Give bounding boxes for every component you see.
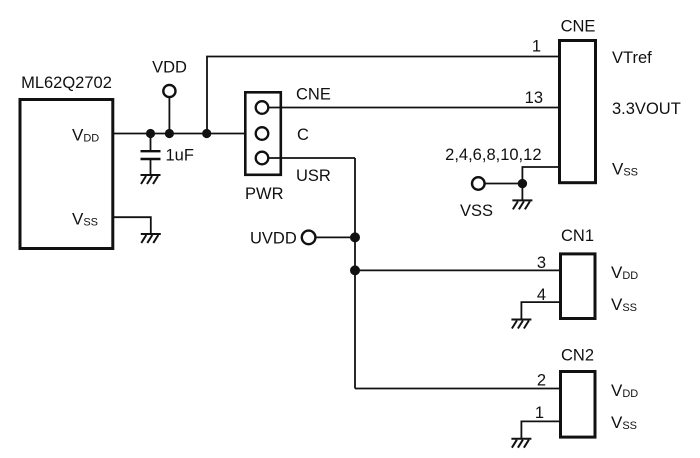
ground (CN2 pin 1) [511, 439, 531, 448]
wire VSS terminal to node [485, 183, 523, 185]
svg-text:ML62Q2702: ML62Q2702 [21, 74, 112, 92]
wire CNE VSS pins to node [522, 167, 558, 200]
svg-text:2,4,6,8,10,12: 2,4,6,8,10,12 [445, 146, 541, 164]
wire PWR pin CNE to CNE pin 13 [262, 107, 558, 109]
capacitor C1 bottom lead [150, 159, 152, 175]
wire U1 VSS pin to ground [113, 217, 151, 234]
svg-text:VSS: VSS [460, 202, 493, 220]
svg-text:CNE: CNE [296, 86, 331, 104]
svg-text:UVDD: UVDD [250, 230, 297, 248]
connector CN1 box [561, 254, 596, 319]
wire VDD bus from U1 VDD pin to PWR pin C [113, 133, 262, 135]
wire node to CNE pin 1 (vertical riser + top run) [207, 57, 558, 134]
wire CN2 pin 1 to ground [521, 421, 559, 438]
ground (CN1 pin 4) [511, 320, 531, 329]
wire UVDD vertical bus [354, 158, 356, 389]
PWR pin circle USR [256, 152, 269, 165]
junction node VSS [518, 179, 527, 188]
svg-text:1uF: 1uF [166, 147, 194, 165]
PWR pin circle CNE [256, 101, 269, 114]
connector PWR box [245, 92, 280, 175]
svg-text:CNE: CNE [561, 18, 596, 36]
wire PWR pin USR to UVDD bus [262, 157, 355, 159]
wire CN1 pin 4 to ground [521, 302, 559, 319]
junction node on VDD bus at VDD terminal [165, 129, 174, 138]
capacitor C1 top lead [150, 134, 152, 152]
svg-text:1: 1 [532, 38, 541, 56]
VDD terminal circle [163, 85, 175, 97]
svg-text:2: 2 [537, 372, 546, 390]
svg-text:USR: USR [296, 167, 331, 185]
svg-text:C: C [297, 126, 309, 144]
junction node on VDD bus at capacitor [146, 129, 155, 138]
svg-text:VTref: VTref [612, 49, 652, 67]
UVDD terminal circle [302, 231, 316, 245]
IC U1 ML62Q2702 box [20, 100, 113, 249]
junction node on VDD bus at riser [202, 129, 211, 138]
svg-text:CN2: CN2 [561, 347, 594, 365]
ground (U1 VSS) [141, 234, 161, 243]
wire bus to CN1 pin 3 [355, 269, 559, 271]
ground (CNE VSS) [512, 200, 532, 209]
ground (below capacitor C1) [141, 175, 161, 184]
junction node CN1 branch [350, 265, 360, 275]
connector CNE box [560, 41, 596, 183]
svg-text:13: 13 [525, 89, 543, 107]
svg-text:VDD: VDD [152, 59, 187, 77]
svg-text:CN1: CN1 [561, 227, 594, 245]
connector CN2 box [561, 372, 596, 438]
VSS terminal circle [472, 177, 485, 190]
capacitor C1 plates [141, 150, 161, 152]
wire UVDD terminal to bus [309, 236, 355, 238]
PWR pin circle C [256, 127, 269, 140]
svg-text:1: 1 [535, 404, 544, 422]
svg-text:3.3VOUT: 3.3VOUT [612, 100, 681, 118]
wire VDD terminal lead [168, 97, 170, 134]
svg-text:3: 3 [537, 254, 546, 272]
svg-text:PWR: PWR [245, 185, 284, 203]
junction node UVDD [350, 232, 360, 242]
wire bus to CN2 pin 2 [355, 388, 559, 390]
